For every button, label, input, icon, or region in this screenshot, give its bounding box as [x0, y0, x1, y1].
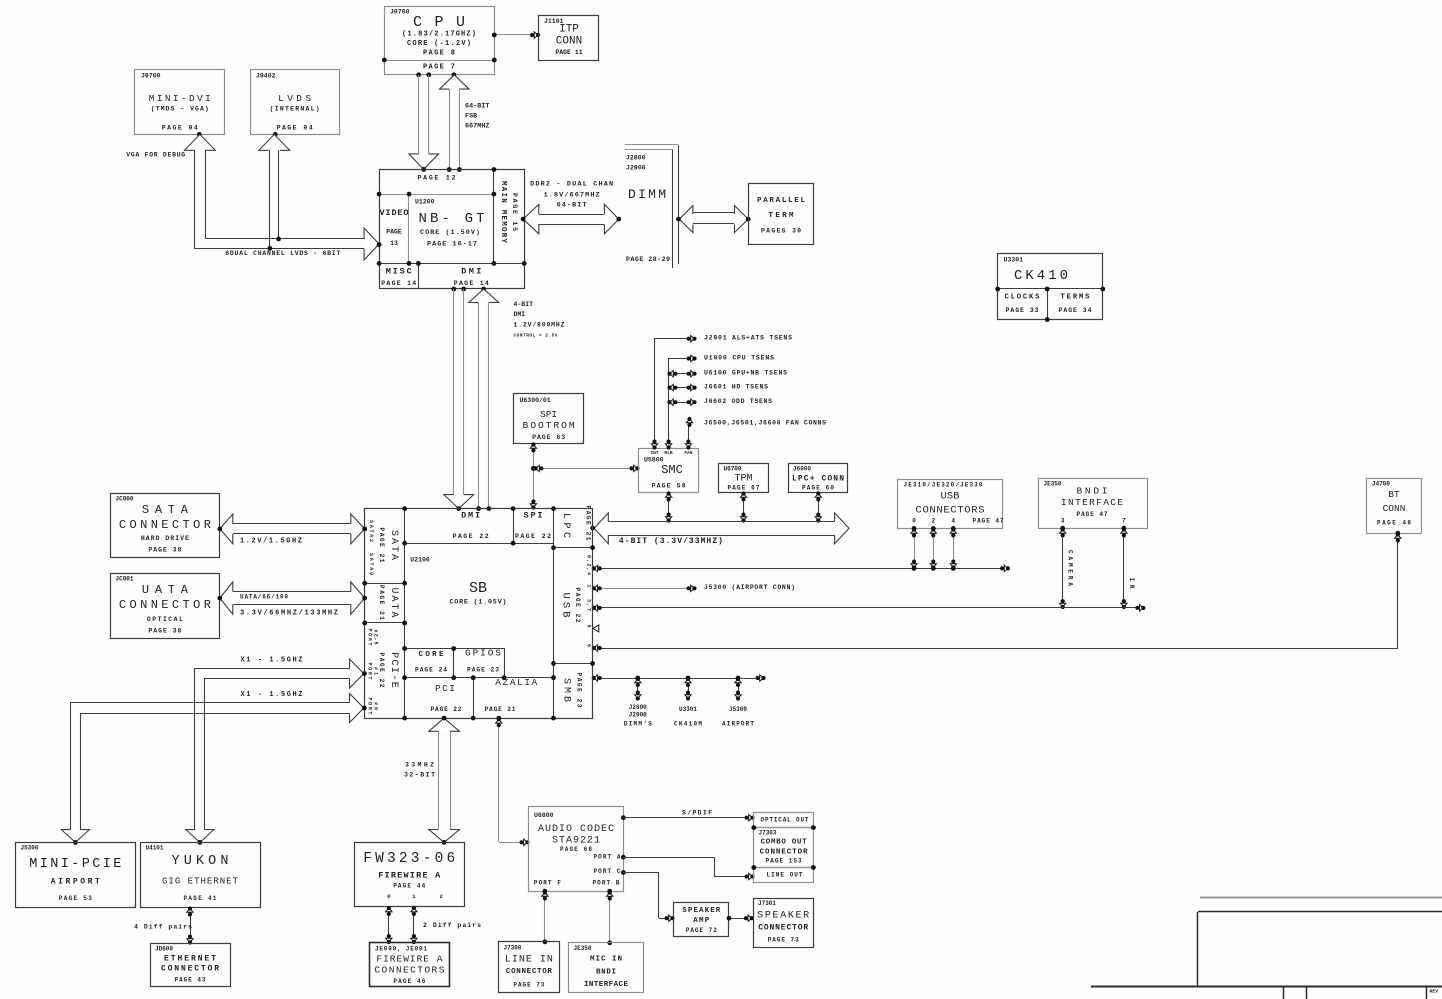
svg-text:X1 - 1.5GHZ: X1 - 1.5GHZ [241, 691, 303, 699]
wire tap U6100 GPU+NB TSENS [667, 371, 696, 377]
wire SMB tap CK410M [674, 677, 702, 728]
svg-text:J2900: J2900 [626, 165, 646, 172]
svg-text:CONNECTOR: CONNECTOR [119, 518, 211, 532]
svg-text:J2800: J2800 [629, 704, 647, 711]
svg-text:32-BIT: 32-BIT [404, 772, 435, 779]
svg-text:AZALIA: AZALIA [495, 677, 537, 688]
svg-text:MINI-PCIE: MINI-PCIE [29, 857, 121, 872]
svg-text:1: 1 [586, 584, 592, 587]
svg-text:INTERFACE: INTERFACE [584, 981, 628, 989]
svg-text:TPM: TPM [734, 474, 752, 485]
svg-text:U6300/01: U6300/01 [520, 397, 551, 404]
svg-text:HARD DRIVE: HARD DRIVE [141, 535, 189, 542]
svg-text:FIREWIRE A: FIREWIRE A [378, 871, 441, 881]
svg-text:SATA: SATA [388, 530, 399, 560]
svg-text:J5300 (AIRPORT CONN): J5300 (AIRPORT CONN) [704, 584, 795, 591]
bus FSB NB-to-CPU up arrow [440, 75, 469, 172]
svg-text:ETHERNET: ETHERNET [164, 955, 216, 964]
wire SPI BOOTROM to SB SPI [530, 442, 536, 509]
svg-text:OPTICAL OUT: OPTICAL OUT [761, 817, 809, 824]
bus DMI NB-to-SB down [444, 289, 474, 511]
svg-text:6DUAL CHANNEL LVDS - 6BIT: 6DUAL CHANNEL LVDS - 6BIT [225, 250, 340, 257]
svg-text:PAGE 60: PAGE 60 [802, 485, 834, 492]
svg-text:2: 2 [439, 893, 442, 900]
svg-text:FAN: FAN [684, 450, 692, 456]
svg-text:CONN: CONN [1383, 503, 1406, 514]
svg-text:VGA FOR DEBUG: VGA FOR DEBUG [126, 152, 185, 159]
wire SMC INT to J2901 ALS+ATS TSENS [651, 336, 696, 450]
wire USB port6 to BT CONN [592, 531, 1401, 651]
block SPI BOOTROM U6300/01 [514, 394, 584, 444]
bus USB 1 to AIRPORT [592, 585, 697, 591]
svg-text:7: 7 [1122, 518, 1126, 525]
wire SPI node to SMC [533, 465, 640, 471]
bus UATA 66/100 [217, 582, 367, 618]
svg-text:0,2,4: 0,2,4 [586, 555, 592, 575]
svg-text:J2900: J2900 [629, 712, 647, 719]
svg-text:BNDI: BNDI [596, 969, 616, 977]
svg-text:REV: REV [1430, 989, 1439, 995]
svg-text:U3301: U3301 [1004, 257, 1024, 264]
svg-text:SPI: SPI [540, 409, 557, 420]
svg-text:PAGE 58: PAGE 58 [652, 483, 686, 490]
svg-text:PAGE 44: PAGE 44 [393, 883, 425, 890]
wire USB port0 drop [911, 527, 917, 569]
wire SMC FAN to fan connectors [685, 417, 693, 450]
svg-text:INT: INT [650, 450, 658, 456]
svg-text:(INTERNAL): (INTERNAL) [270, 106, 320, 113]
svg-text:SMB: SMB [561, 678, 572, 702]
svg-text:1.8V/667MHZ: 1.8V/667MHZ [544, 192, 600, 200]
svg-text:U6800: U6800 [534, 812, 554, 819]
block SPEAKER CONNECTOR J7301 [754, 899, 814, 948]
svg-text:PAGE 63: PAGE 63 [532, 434, 565, 441]
svg-text:PAGE 11: PAGE 11 [555, 49, 582, 56]
wire SMB tap DIMMs [624, 677, 652, 728]
wire PORT B to MIC IN [607, 890, 613, 945]
block SMC U5800 [639, 449, 699, 493]
svg-text:CK410M: CK410M [674, 721, 702, 728]
svg-text:INTERFACE: INTERFACE [1061, 497, 1123, 508]
bus SMB [592, 675, 766, 681]
svg-text:PAGE 34: PAGE 34 [1059, 307, 1092, 314]
wire PORT F to LINE IN [542, 890, 548, 944]
svg-text:PAGE 73: PAGE 73 [768, 937, 799, 944]
svg-text:CONNECTOR: CONNECTOR [760, 849, 808, 857]
svg-text:J2800: J2800 [626, 155, 646, 162]
svg-text:CONNECTORS: CONNECTORS [374, 965, 444, 976]
svg-text:1.2V/800MHZ: 1.2V/800MHZ [514, 322, 565, 329]
svg-text:U6700: U6700 [724, 466, 742, 473]
wire YUKON to ETHERNET CONNECTOR [134, 906, 193, 944]
svg-text:PAGE 28-29: PAGE 28-29 [626, 256, 670, 263]
svg-text:JC900: JC900 [116, 496, 134, 503]
svg-text:DDR2 - DUAL CHAN: DDR2 - DUAL CHAN [530, 181, 613, 189]
block UATA CONNECTOR JC901 [111, 574, 220, 639]
svg-text:6: 6 [586, 644, 592, 647]
bus DMI SB-to-NB up [469, 289, 499, 511]
block LINE IN CONNECTOR J7300 [499, 942, 560, 993]
block BNDI INTERFACE JE350 [1039, 479, 1148, 531]
svg-text:J0700: J0700 [390, 9, 410, 16]
svg-text:PAGE 21: PAGE 21 [485, 706, 516, 713]
svg-text:PAGE 38: PAGE 38 [148, 547, 181, 554]
bus LPC 4-BIT [590, 513, 849, 544]
svg-text:JC901: JC901 [116, 576, 134, 583]
block CK410 clock U3301 [995, 254, 1105, 322]
block MINI-PCIE AIRPORT J5300 [16, 843, 136, 908]
svg-text:TERM: TERM [769, 212, 794, 220]
wire FW port1 to connectors [411, 906, 481, 944]
bus video NB to displays [185, 134, 382, 260]
block COMBO OUT CONNECTOR J7303 with OPTICAL OUT / LINE OUT [751, 813, 815, 883]
svg-text:PAGE 16-17: PAGE 16-17 [427, 241, 477, 249]
block MINI-DVI J9700 [135, 70, 225, 137]
svg-text:ITP: ITP [559, 24, 579, 36]
svg-text:3: 3 [1061, 518, 1065, 525]
wire CAMERA drop BNDI pin3 [1060, 527, 1074, 609]
svg-text:STA9221: STA9221 [552, 836, 600, 847]
svg-text:J6000: J6000 [793, 466, 811, 473]
svg-text:SB: SB [469, 580, 487, 597]
bus PCIe X1 port0 to MINI-PCIE [61, 691, 366, 845]
wire FW port0 to connectors [386, 906, 392, 944]
svg-text:PAGE: PAGE [386, 229, 402, 236]
svg-text:LPC: LPC [560, 513, 571, 538]
svg-text:#1: #1 [373, 667, 379, 675]
svg-text:BT: BT [1388, 489, 1400, 500]
svg-text:(1.83/2.17GHZ): (1.83/2.17GHZ) [402, 31, 476, 39]
svg-text:J2901 ALS+ATS TSENS: J2901 ALS+ATS TSENS [704, 335, 792, 342]
svg-text:DMI: DMI [514, 311, 526, 318]
svg-text:PORT C: PORT C [594, 868, 621, 875]
svg-text:SPEAKER: SPEAKER [682, 907, 720, 915]
svg-text:SMC: SMC [661, 463, 683, 477]
svg-text:2 Diff pairs: 2 Diff pairs [423, 922, 481, 929]
svg-text:J7301: J7301 [758, 900, 776, 907]
svg-text:CORE (1.05V): CORE (1.05V) [450, 599, 507, 607]
svg-text:CORE (-1.2V): CORE (-1.2V) [407, 40, 471, 48]
svg-text:CONTROL = 2.5V: CONTROL = 2.5V [514, 333, 558, 339]
svg-text:PAGE 33: PAGE 33 [1006, 307, 1039, 314]
svg-text:4 Diff pairs: 4 Diff pairs [134, 924, 192, 931]
svg-text:#0: #0 [373, 702, 379, 710]
svg-text:CLOCKS: CLOCKS [1005, 294, 1041, 302]
svg-text:J7303: J7303 [759, 830, 777, 837]
svg-text:J6602 ODD TSENS: J6602 ODD TSENS [704, 398, 772, 405]
bus USB 3,7 [592, 605, 1146, 611]
svg-text:PAGES 30: PAGES 30 [761, 228, 801, 235]
svg-text:PAGE 73: PAGE 73 [513, 982, 544, 989]
wire USB port4 drop [950, 527, 956, 569]
svg-text:U1000 CPU TSENS: U1000 CPU TSENS [704, 355, 774, 362]
svg-text:FIREWIRE A: FIREWIRE A [376, 954, 442, 965]
label DMI 4-BIT 1.2V/800MHZ [514, 301, 565, 339]
svg-text:PAGE 47: PAGE 47 [973, 518, 1004, 525]
bus FSB CPU-to-NB down arrow [409, 75, 439, 172]
block CPU J0700 [382, 7, 497, 78]
svg-text:PORT F: PORT F [534, 880, 561, 887]
svg-text:J5300: J5300 [729, 706, 747, 713]
svg-text:JE310/JE320/JE330: JE310/JE320/JE330 [904, 482, 983, 489]
connector DIMM J2800 J2900 [625, 145, 679, 269]
svg-text:PORT B: PORT B [593, 880, 620, 887]
svg-text:CONNECTOR: CONNECTOR [161, 965, 219, 974]
svg-text:4-BIT (3.3V/33MHZ): 4-BIT (3.3V/33MHZ) [619, 537, 723, 546]
svg-text:J5300: J5300 [21, 845, 39, 852]
svg-text:PAGE 7: PAGE 7 [423, 64, 455, 72]
svg-text:PAGE 46: PAGE 46 [393, 978, 425, 985]
svg-text:USB: USB [560, 593, 572, 618]
bus DDR2 NB to DIMM [521, 204, 622, 233]
wire AZALIA to AUDIO CODEC [496, 716, 530, 846]
svg-text:PAGE 22: PAGE 22 [431, 706, 462, 713]
svg-text:4: 4 [951, 518, 955, 525]
svg-text:0: 0 [387, 893, 390, 900]
wire CPU to ITP CONN [492, 32, 540, 38]
svg-text:PAGE 8: PAGE 8 [423, 50, 455, 58]
block YUKON GIG ETHERNET U4101 [141, 843, 261, 908]
wire SPDIF to OPTICAL OUT [623, 810, 755, 821]
svg-text:U2100: U2100 [410, 557, 430, 564]
svg-text:PCI-E: PCI-E [388, 652, 400, 688]
svg-text:PORT A: PORT A [594, 854, 621, 861]
svg-text:J7300: J7300 [504, 945, 522, 952]
svg-text:U1200: U1200 [415, 199, 435, 206]
svg-text:1.2V/1.5GHZ: 1.2V/1.5GHZ [240, 538, 302, 546]
svg-text:CONNECTOR: CONNECTOR [758, 924, 808, 933]
svg-text:CONNECTORS: CONNECTORS [916, 505, 985, 517]
svg-text:MISC: MISC [386, 267, 412, 277]
svg-text:COMBO OUT: COMBO OUT [761, 839, 807, 847]
block MIC IN BNDI INTERFACE JE350 [569, 943, 644, 993]
svg-text:13: 13 [390, 240, 398, 247]
block AUDIO CODEC STA9221 U6800 [529, 807, 626, 894]
wire LPC+ CONN to LPC bus [815, 491, 821, 522]
svg-text:3.3V/66MHZ/133MHZ: 3.3V/66MHZ/133MHZ [240, 610, 338, 618]
svg-text:PAGE 23: PAGE 23 [467, 667, 499, 674]
svg-text:4-BIT: 4-BIT [514, 301, 534, 308]
svg-text:UATA/66/100: UATA/66/100 [240, 593, 288, 600]
block ETHERNET CONNECTOR JD600 [151, 944, 231, 987]
svg-text:JE000, JE001: JE000, JE001 [375, 946, 427, 953]
svg-text:LPC+ CONN: LPC+ CONN [792, 475, 844, 484]
svg-text:64-BIT: 64-BIT [465, 103, 489, 111]
block NB-GT northbridge U1200 [377, 167, 527, 291]
bus DIMM to PARALLEL TERM [676, 206, 751, 233]
bus SATA 1.2V/1.5GHZ [217, 514, 367, 546]
svg-text:CONNECTOR: CONNECTOR [119, 598, 211, 612]
block SATA CONNECTOR JC900 [111, 494, 220, 558]
svg-text:PAGE 68: PAGE 68 [560, 846, 592, 853]
wire IR drop BNDI pin7 [1121, 527, 1135, 609]
svg-text:PORT: PORT [367, 629, 373, 646]
label FSB 64-BIT 667MHZ [465, 103, 489, 131]
block PARALLEL TERM [749, 184, 814, 245]
svg-text:J6601 HD TSENS: J6601 HD TSENS [704, 384, 768, 391]
wire SMB tap AIRPORT [722, 677, 754, 728]
svg-text:PAGE 38: PAGE 38 [148, 628, 181, 635]
title block frame [1091, 898, 1442, 999]
svg-text:CORE (1.50V): CORE (1.50V) [420, 229, 480, 237]
svg-text:PAGE 14: PAGE 14 [381, 280, 416, 287]
label DDR2 DUAL CHAN [530, 181, 613, 210]
svg-text:USB: USB [941, 491, 960, 503]
svg-text:J9700: J9700 [141, 73, 161, 80]
block TPM U6700 [719, 464, 769, 493]
svg-text:CONNECTOR: CONNECTOR [506, 968, 552, 976]
svg-text:JE350: JE350 [574, 945, 592, 952]
svg-text:FSB: FSB [465, 113, 477, 121]
svg-text:PAGE 24: PAGE 24 [415, 667, 447, 674]
svg-text:PARALLEL: PARALLEL [757, 197, 805, 205]
svg-text:DMI: DMI [461, 267, 481, 277]
svg-text:MIC IN: MIC IN [590, 956, 622, 964]
wire PORT C to SPEAKER AMP [623, 872, 675, 921]
svg-text:SPI: SPI [524, 511, 543, 521]
block USB CONNECTORS JE310/JE320/JE330 [898, 480, 1004, 531]
svg-text:VIDEO: VIDEO [380, 208, 409, 218]
svg-text:SPEAKER: SPEAKER [757, 911, 809, 922]
svg-text:DMI: DMI [461, 511, 480, 521]
block FW323-06 FIREWIRE A [355, 843, 465, 907]
svg-text:UATA: UATA [388, 588, 399, 618]
svg-text:U4101: U4101 [146, 845, 164, 852]
svg-text:J6500,J6501,J6600 FAN CONNS: J6500,J6501,J6600 FAN CONNS [704, 420, 826, 427]
wire USB port2 drop [930, 527, 936, 569]
svg-text:JE350: JE350 [1044, 481, 1062, 488]
block BT CONN J4700 [1367, 479, 1422, 534]
svg-text:LINE OUT: LINE OUT [767, 872, 803, 879]
block ITP CONN J1101 [539, 16, 599, 61]
svg-text:64-BIT: 64-BIT [557, 202, 587, 210]
block LVDS J9402 [251, 70, 340, 137]
svg-text:S/PDIF: S/PDIF [682, 810, 712, 817]
svg-text:MLB: MLB [665, 450, 673, 456]
wire SPEAKER AMP to SPEAKER CONNECTOR [727, 915, 754, 921]
wire SMC to LPC bus [665, 491, 671, 522]
svg-text:PAGE 153: PAGE 153 [766, 858, 802, 865]
svg-text:PAGE 43: PAGE 43 [175, 977, 206, 984]
bus PCIe X1 port1 to YUKON [186, 657, 367, 845]
wire tap J6601 HD TSENS [667, 384, 696, 390]
svg-text:GIG ETHERNET: GIG ETHERNET [162, 877, 239, 887]
bus PCI 33MHZ 32-BIT to FW323 [404, 716, 459, 845]
svg-text:J4700: J4700 [1372, 481, 1390, 488]
svg-text:MAIN MEMORY: MAIN MEMORY [499, 181, 507, 243]
block SB southbridge U2100 [362, 506, 595, 721]
svg-text:AMP: AMP [693, 917, 709, 925]
wire PORT A to LINE OUT [623, 857, 755, 880]
wire tap J6602 ODD TSENS [667, 399, 696, 405]
svg-text:J9402: J9402 [256, 73, 276, 80]
block FIREWIRE A CONNECTORS JE000 JE001 [370, 943, 450, 987]
svg-text:U3301: U3301 [679, 706, 697, 713]
svg-text:AUDIO CODEC: AUDIO CODEC [538, 824, 614, 835]
svg-text:CK410: CK410 [1014, 268, 1068, 284]
svg-text:DIMM'S: DIMM'S [624, 721, 652, 728]
bus USB 0,2,4 [592, 565, 1010, 571]
svg-text:#2-5: #2-5 [373, 630, 379, 645]
svg-text:5: 5 [586, 624, 592, 627]
svg-text:X1 - 1.5GHZ: X1 - 1.5GHZ [241, 657, 303, 665]
svg-text:LINE IN: LINE IN [505, 955, 553, 966]
svg-text:PAGE 47: PAGE 47 [1077, 511, 1108, 518]
svg-text:PORT: PORT [367, 698, 373, 715]
svg-text:PAGE 72: PAGE 72 [686, 927, 717, 934]
svg-text:CPU: CPU [413, 14, 465, 31]
block SPEAKER AMP [674, 903, 729, 937]
port USB 5 stub [593, 625, 599, 632]
wire SMC MLB to U1000 CPU TSENS [665, 355, 696, 449]
svg-text:PCI: PCI [435, 683, 455, 694]
block LPC+ CONN J6000 [789, 464, 848, 493]
svg-text:0: 0 [912, 518, 916, 525]
svg-text:(TMDS - VGA): (TMDS - VGA) [151, 106, 209, 113]
svg-text:3,7: 3,7 [586, 599, 592, 611]
svg-text:U6100 GPU+NB TSENS: U6100 GPU+NB TSENS [704, 370, 787, 377]
svg-text:AIRPORT: AIRPORT [722, 721, 754, 728]
svg-text:CORE: CORE [419, 651, 444, 659]
svg-text:PORT: PORT [367, 663, 373, 680]
svg-text:GPIOS: GPIOS [465, 648, 501, 659]
svg-text:PAGE 67: PAGE 67 [728, 485, 760, 492]
wire TPM to LPC bus [740, 491, 746, 522]
svg-text:JD600: JD600 [155, 946, 173, 953]
svg-text:CONN: CONN [556, 36, 582, 48]
svg-text:2: 2 [931, 518, 935, 525]
svg-text:667MHZ: 667MHZ [465, 123, 489, 131]
